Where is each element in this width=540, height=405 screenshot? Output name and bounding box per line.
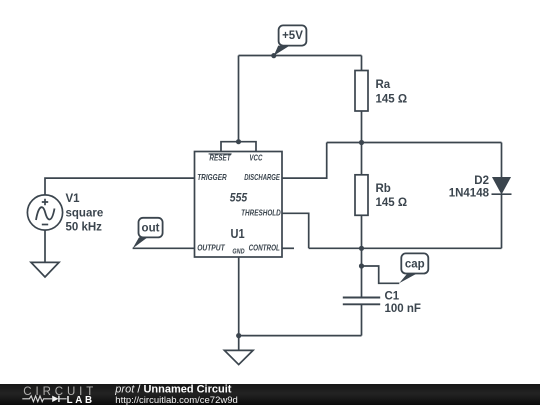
wire C1 bottom bbox=[361, 304, 363, 335]
junction node on RESET/VCC loop bbox=[236, 139, 241, 144]
svg-text:DISCHARGE: DISCHARGE bbox=[244, 172, 280, 182]
junction node discharge rail / Rb bbox=[359, 140, 364, 145]
op-amp/IC U1 555 body bbox=[195, 152, 283, 258]
svg-text:cap: cap bbox=[405, 258, 425, 270]
resistor Rb bbox=[355, 175, 368, 216]
wire THRESHOLD pin stub bbox=[282, 213, 309, 248]
wire D2 anode bbox=[501, 143, 503, 178]
resistor Ra bbox=[355, 71, 368, 112]
junction node +5V bbox=[271, 53, 276, 58]
svg-text:prot / Unnamed Circuit: prot / Unnamed Circuit bbox=[114, 384, 231, 396]
svg-text:square: square bbox=[66, 207, 104, 219]
C1 value label bbox=[385, 291, 421, 315]
wire VCC riser to +5V rail bbox=[238, 56, 240, 142]
wire CONTROL pin stub bbox=[282, 247, 294, 249]
V1 value label bbox=[66, 193, 104, 234]
junction node bottom rail / Rb bbox=[359, 246, 364, 251]
D2 value label bbox=[449, 175, 490, 200]
svg-text:TRIGGER: TRIGGER bbox=[197, 172, 227, 182]
svg-text:145 Ω: 145 Ω bbox=[376, 197, 408, 209]
wire discharge rail to Rb bbox=[361, 143, 363, 175]
wire Rb to bottom rail bbox=[361, 215, 363, 248]
svg-text:V1: V1 bbox=[66, 193, 81, 205]
svg-text:Ra: Ra bbox=[376, 79, 391, 91]
svg-text:U1: U1 bbox=[231, 226, 246, 241]
wire Ra to discharge rail bbox=[361, 111, 363, 143]
svg-text:C1: C1 bbox=[385, 291, 400, 303]
svg-text:+5V: +5V bbox=[282, 30, 303, 42]
wire OUTPUT pin to out flag bbox=[133, 247, 195, 249]
svg-text:THRESHOLD: THRESHOLD bbox=[241, 208, 281, 218]
svg-text:555: 555 bbox=[230, 191, 248, 205]
junction node cap tap bbox=[359, 263, 364, 268]
wire V1 top to TRIGGER bbox=[45, 178, 195, 195]
svg-text:OUTPUT: OUTPUT bbox=[197, 242, 225, 252]
svg-text:CONTROL: CONTROL bbox=[249, 242, 280, 252]
svg-text:http://circuitlab.com/ce72w9d: http://circuitlab.com/ce72w9d bbox=[115, 395, 238, 405]
svg-text:LAB: LAB bbox=[67, 395, 93, 405]
capacitor C1 bbox=[343, 298, 380, 305]
footer bar bbox=[0, 384, 540, 405]
wire C1 to GND pin bbox=[239, 335, 362, 337]
svg-text:D2: D2 bbox=[474, 175, 489, 187]
svg-text:VCC: VCC bbox=[249, 153, 263, 163]
ground for 555 GND bbox=[224, 350, 253, 364]
net flag out bbox=[133, 218, 163, 249]
wire threshold bottom rail bbox=[309, 247, 502, 249]
junction node GND wire bbox=[236, 333, 241, 338]
svg-text:50 kHz: 50 kHz bbox=[66, 222, 103, 234]
wire discharge rail bbox=[327, 142, 502, 144]
footer logo resistor zigzag bbox=[22, 396, 52, 402]
svg-text:145 Ω: 145 Ω bbox=[376, 94, 408, 106]
diode D2 bbox=[492, 178, 512, 195]
svg-text:GND: GND bbox=[232, 246, 245, 255]
net flag +5V bbox=[274, 25, 307, 55]
Rb value label bbox=[376, 183, 408, 209]
voltage source V1 bbox=[27, 195, 62, 230]
wire +5V top rail bbox=[239, 55, 362, 57]
wire D2 cathode bbox=[501, 194, 503, 248]
wire RESET/VCC loop bbox=[221, 142, 256, 152]
svg-text:out: out bbox=[142, 223, 160, 235]
net flag cap bbox=[399, 253, 428, 283]
Ra value label bbox=[376, 79, 408, 106]
wire V1 bottom to ground bbox=[44, 230, 46, 262]
wire node to C1 bbox=[361, 248, 363, 297]
svg-text:100 nF: 100 nF bbox=[385, 303, 421, 315]
svg-text:1N4148: 1N4148 bbox=[449, 188, 490, 200]
svg-text:Rb: Rb bbox=[376, 183, 391, 195]
ground for V1 bbox=[31, 262, 59, 277]
wire DISCHARGE pin stub bbox=[282, 143, 327, 179]
wire 555 GND pin to ground bbox=[238, 257, 240, 350]
wire cap flag tap bbox=[362, 266, 400, 283]
wire top rail to Ra bbox=[361, 56, 363, 71]
pin label RESET bbox=[209, 153, 232, 163]
footer logo diode symbol bbox=[52, 396, 66, 402]
